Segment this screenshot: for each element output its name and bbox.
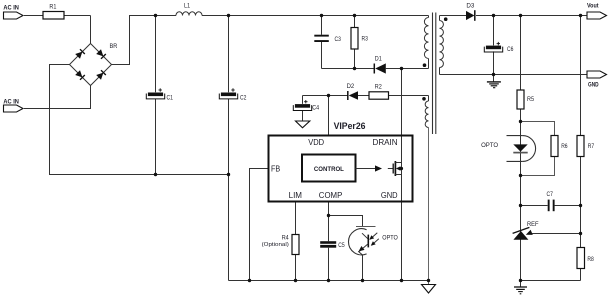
svg-text:C2: C2 xyxy=(240,94,247,101)
svg-text:OPTO: OPTO xyxy=(382,235,398,242)
svg-text:R2: R2 xyxy=(375,84,382,91)
svg-text:AC IN: AC IN xyxy=(3,5,19,12)
svg-text:FB: FB xyxy=(271,163,280,173)
svg-text:DRAIN: DRAIN xyxy=(373,137,398,147)
svg-text:C6: C6 xyxy=(507,46,514,53)
svg-text:GND: GND xyxy=(381,190,398,200)
svg-text:C7: C7 xyxy=(547,191,554,198)
svg-text:(Optional): (Optional) xyxy=(262,242,289,248)
svg-text:D3: D3 xyxy=(466,2,475,9)
svg-text:Vout: Vout xyxy=(587,2,599,9)
svg-text:D1: D1 xyxy=(375,56,382,63)
svg-text:BR: BR xyxy=(110,43,118,50)
svg-text:R7: R7 xyxy=(588,143,595,150)
svg-text:R6: R6 xyxy=(561,143,568,150)
svg-text:L1: L1 xyxy=(184,2,190,9)
svg-text:LIM: LIM xyxy=(289,190,302,200)
svg-text:OPTO: OPTO xyxy=(481,142,498,149)
svg-text:D2: D2 xyxy=(347,83,355,90)
svg-text:C1: C1 xyxy=(167,94,174,101)
svg-text:C5: C5 xyxy=(338,242,345,249)
svg-text:R3: R3 xyxy=(362,35,369,42)
svg-text:VDD: VDD xyxy=(308,137,324,147)
svg-text:C4: C4 xyxy=(312,104,319,111)
svg-text:REF: REF xyxy=(527,221,539,228)
svg-text:VIPer26: VIPer26 xyxy=(334,121,366,131)
svg-text:R4: R4 xyxy=(282,235,289,242)
svg-text:CONTROL: CONTROL xyxy=(314,166,344,173)
svg-text:COMP: COMP xyxy=(319,190,343,200)
svg-text:C3: C3 xyxy=(335,36,342,43)
svg-text:R1: R1 xyxy=(49,4,56,11)
svg-text:AC IN: AC IN xyxy=(3,98,19,105)
svg-text:GND: GND xyxy=(588,81,599,88)
svg-text:R5: R5 xyxy=(527,96,534,103)
svg-text:R8: R8 xyxy=(587,256,594,263)
